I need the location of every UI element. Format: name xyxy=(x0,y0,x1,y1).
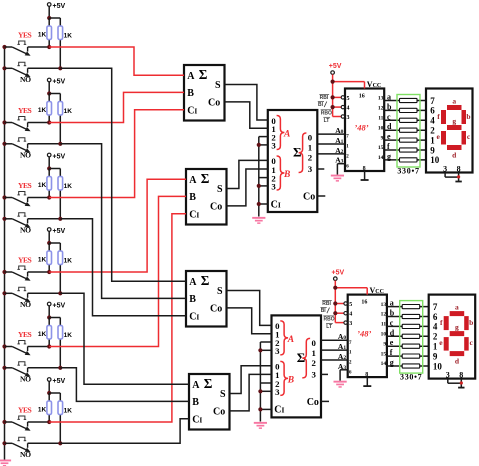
svg-text:4: 4 xyxy=(430,116,435,126)
svg-text:Co: Co xyxy=(213,407,225,418)
svg-text:’48’: ’48’ xyxy=(354,123,368,133)
svg-text:RBI: RBI xyxy=(320,95,329,101)
svg-text:1K: 1K xyxy=(38,182,47,189)
svg-text:e: e xyxy=(390,338,394,347)
svg-text:a: a xyxy=(387,93,391,102)
svg-text:1K: 1K xyxy=(64,108,73,115)
svg-text:B: B xyxy=(189,192,196,203)
svg-text:A: A xyxy=(287,335,294,345)
svg-text:YES: YES xyxy=(18,31,32,40)
svg-text:1K: 1K xyxy=(38,407,47,414)
svg-text:A: A xyxy=(189,277,197,288)
svg-text:NO: NO xyxy=(20,374,31,383)
svg-text:b: b xyxy=(466,112,470,121)
svg-text:3: 3 xyxy=(349,321,352,327)
svg-text:1: 1 xyxy=(308,143,312,153)
svg-text:12: 12 xyxy=(378,106,384,112)
svg-text:Σ: Σ xyxy=(293,145,302,160)
svg-text:CI: CI xyxy=(274,405,284,416)
svg-text:NO: NO xyxy=(20,225,31,234)
svg-text:7: 7 xyxy=(430,96,435,106)
svg-text:LT: LT xyxy=(324,118,330,124)
svg-text:14: 14 xyxy=(381,361,387,367)
svg-text:NO: NO xyxy=(20,300,31,309)
svg-text:f: f xyxy=(390,348,393,357)
svg-text:b: b xyxy=(390,309,395,318)
svg-text:d: d xyxy=(387,122,392,131)
svg-text:S: S xyxy=(217,184,223,195)
svg-text:2: 2 xyxy=(433,332,438,342)
svg-text:YES: YES xyxy=(18,181,32,190)
svg-text:10: 10 xyxy=(381,332,387,338)
svg-text:5: 5 xyxy=(349,302,352,308)
svg-text:+5V: +5V xyxy=(53,228,66,235)
svg-text:g: g xyxy=(452,116,456,125)
svg-text:8: 8 xyxy=(459,370,463,379)
svg-text:1K: 1K xyxy=(64,408,73,415)
svg-text:1K: 1K xyxy=(38,257,47,264)
svg-text:RBO: RBO xyxy=(321,110,332,116)
svg-text:RBI: RBI xyxy=(322,301,331,307)
svg-text:g: g xyxy=(387,152,391,161)
svg-text:Co: Co xyxy=(307,397,319,408)
svg-text:3: 3 xyxy=(271,141,276,151)
svg-text:Co: Co xyxy=(208,98,220,109)
svg-text:3: 3 xyxy=(308,164,313,174)
svg-text:9: 9 xyxy=(383,341,386,347)
svg-text:NO: NO xyxy=(20,75,31,84)
svg-text:4: 4 xyxy=(347,106,350,112)
svg-text:+5V: +5V xyxy=(53,303,66,310)
svg-text:+5V: +5V xyxy=(53,79,66,86)
svg-text:B: B xyxy=(192,397,199,408)
svg-text:A: A xyxy=(283,130,290,140)
svg-text:+5V: +5V xyxy=(332,269,345,276)
svg-text:4: 4 xyxy=(349,312,352,318)
svg-text:B: B xyxy=(283,170,290,180)
svg-text:3: 3 xyxy=(446,370,450,379)
svg-text:0: 0 xyxy=(308,133,313,143)
svg-text:1K: 1K xyxy=(64,258,73,265)
svg-text:S: S xyxy=(215,80,221,91)
svg-text:RBO: RBO xyxy=(324,317,335,323)
svg-text:Co: Co xyxy=(303,192,315,203)
svg-text:4: 4 xyxy=(433,322,438,332)
svg-text:10: 10 xyxy=(433,361,443,371)
svg-text:+5V: +5V xyxy=(329,63,342,70)
svg-text:b: b xyxy=(387,102,392,111)
svg-text:3: 3 xyxy=(443,164,447,173)
svg-text:1: 1 xyxy=(311,348,315,358)
svg-text:1K: 1K xyxy=(38,32,47,39)
svg-text:a: a xyxy=(390,299,394,308)
svg-text:3: 3 xyxy=(275,346,280,356)
svg-text:1K: 1K xyxy=(64,332,73,339)
svg-text:6: 6 xyxy=(430,106,435,116)
svg-text:9: 9 xyxy=(381,135,384,141)
svg-text:+5V: +5V xyxy=(53,154,66,161)
svg-text:e: e xyxy=(387,132,391,141)
svg-text:d: d xyxy=(390,328,395,337)
svg-text:c: c xyxy=(387,112,391,121)
svg-text:YES: YES xyxy=(18,256,32,265)
svg-text:16: 16 xyxy=(361,300,367,306)
svg-text:1K: 1K xyxy=(64,183,73,190)
svg-text:6: 6 xyxy=(433,312,438,322)
svg-text:8: 8 xyxy=(457,164,461,173)
svg-text:Σ: Σ xyxy=(199,67,208,82)
svg-text:B: B xyxy=(189,294,196,305)
svg-text:1: 1 xyxy=(430,135,435,145)
svg-text:B: B xyxy=(287,375,294,385)
svg-text:Σ: Σ xyxy=(297,350,306,365)
svg-text:S: S xyxy=(217,286,223,297)
svg-text:A: A xyxy=(189,175,197,186)
svg-text:g: g xyxy=(455,323,459,332)
svg-text:S: S xyxy=(220,389,226,400)
svg-text:11: 11 xyxy=(381,322,386,328)
svg-text:YES: YES xyxy=(18,106,32,115)
svg-text:5: 5 xyxy=(347,96,350,102)
svg-text:330•7: 330•7 xyxy=(400,373,422,382)
svg-text:3: 3 xyxy=(311,370,316,380)
svg-text:2: 2 xyxy=(430,126,435,136)
svg-text:1: 1 xyxy=(433,342,438,352)
svg-text:12: 12 xyxy=(381,312,387,318)
svg-text:1K: 1K xyxy=(38,107,47,114)
svg-text:A: A xyxy=(192,380,200,391)
svg-text:f: f xyxy=(387,142,390,151)
svg-text:BI: BI xyxy=(321,308,327,314)
svg-text:15: 15 xyxy=(378,145,384,151)
svg-text:NO: NO xyxy=(20,450,31,459)
svg-text:11: 11 xyxy=(378,116,383,122)
svg-text:+5V: +5V xyxy=(53,3,66,10)
svg-text:Co: Co xyxy=(210,304,222,315)
svg-text:BI: BI xyxy=(318,102,324,108)
svg-text:CI: CI xyxy=(192,415,202,426)
svg-text:A: A xyxy=(187,71,195,82)
svg-text:2: 2 xyxy=(311,358,316,368)
svg-text:B: B xyxy=(187,88,194,99)
svg-text:g: g xyxy=(390,358,394,367)
svg-text:2: 2 xyxy=(308,152,313,162)
svg-text:Co: Co xyxy=(210,202,222,213)
svg-text:9: 9 xyxy=(433,351,438,361)
svg-text:0: 0 xyxy=(311,338,316,348)
svg-text:CI: CI xyxy=(189,312,199,323)
svg-text:NO: NO xyxy=(20,150,31,159)
svg-text:’48’: ’48’ xyxy=(357,329,371,339)
svg-text:LT: LT xyxy=(326,324,332,330)
svg-text:13: 13 xyxy=(381,302,387,308)
svg-text:13: 13 xyxy=(378,96,384,102)
svg-text:10: 10 xyxy=(378,125,384,131)
svg-text:1K: 1K xyxy=(38,331,47,338)
svg-text:15: 15 xyxy=(381,351,387,357)
svg-text:3: 3 xyxy=(275,387,280,397)
svg-text:7: 7 xyxy=(433,302,438,312)
svg-text:CI: CI xyxy=(187,106,197,117)
svg-text:YES: YES xyxy=(18,330,32,339)
svg-text:330•7: 330•7 xyxy=(397,167,419,176)
svg-text:a: a xyxy=(455,303,459,312)
svg-text:16: 16 xyxy=(359,94,365,100)
svg-text:Σ: Σ xyxy=(204,376,213,391)
svg-text:3: 3 xyxy=(347,115,350,121)
svg-text:1K: 1K xyxy=(64,33,73,40)
svg-text:Σ: Σ xyxy=(201,273,210,288)
svg-text:Σ: Σ xyxy=(201,171,210,186)
svg-text:9: 9 xyxy=(430,145,435,155)
svg-text:a: a xyxy=(452,97,456,106)
svg-text:10: 10 xyxy=(430,155,440,165)
svg-text:CI: CI xyxy=(271,199,281,210)
svg-text:3: 3 xyxy=(271,182,276,192)
svg-text:CI: CI xyxy=(189,210,199,221)
svg-text:c: c xyxy=(390,318,394,327)
svg-text:b: b xyxy=(469,318,473,327)
svg-text:+5V: +5V xyxy=(53,378,66,385)
svg-text:14: 14 xyxy=(378,155,384,161)
svg-text:YES: YES xyxy=(18,406,32,415)
